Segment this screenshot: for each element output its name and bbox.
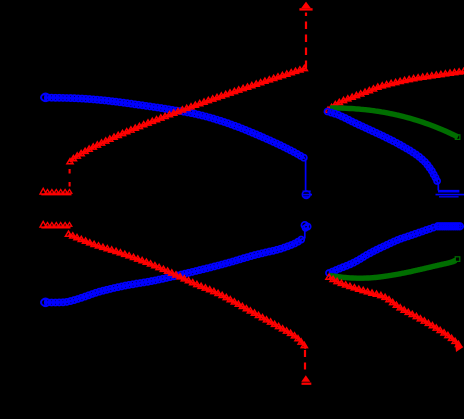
markers: lower-left blue open circles (41, 237, 304, 306)
markers: upper-right blue open circles (324, 108, 440, 184)
curve: lower-left blue level line (44, 239, 303, 303)
markers: upper-left blue open circles (41, 94, 307, 160)
curve: upper-right green thick line (330, 108, 458, 137)
wire: upper-right blue vertical drop (437, 184, 439, 191)
arrow: lower red dashed vertical arrow (304, 350, 306, 374)
curve: upper-left red rising line (70, 68, 306, 162)
marker: lower-left blue large start circle (41, 298, 49, 306)
marker: lower-left red large start triangle (40, 221, 46, 227)
arrow: upper red dashed vertical arrow (305, 13, 307, 69)
arrow: lower-right red end arrowhead (455, 342, 464, 352)
markers: upper-left red rising triangles (67, 65, 308, 163)
marker: upper-right green end square (455, 135, 460, 140)
wire: lower-left red flat level line (41, 227, 70, 229)
wire: lower-right plateau level line (437, 225, 464, 227)
wire: upper-left red flat level line (41, 194, 71, 196)
curve: upper-right blue level line (328, 112, 439, 184)
markers: upper-left red flat row triangles (45, 190, 72, 194)
curve: lower-right green thick line (330, 260, 457, 278)
markers: lower-right red descending triangles (326, 274, 462, 346)
curve: upper-left blue level line (44, 98, 305, 159)
marker: lower-right green end square (455, 257, 460, 262)
curve: lower-right blue level line (329, 227, 436, 273)
markers: lower-right blue open circles (326, 225, 436, 277)
markers: lower-left red flat row triangles (45, 223, 72, 227)
marker: upper-left blue end circle (302, 191, 310, 199)
marker: upper-left blue large start circle (41, 93, 49, 101)
markers: lower-left red descending triangles (65, 231, 307, 348)
node: short level lines at upper-left blue end (302, 191, 312, 197)
markers: upper-right red rising triangles (325, 68, 464, 112)
marker: lower-left blue end circles (301, 222, 308, 229)
curve: lower-right red descending line (329, 278, 462, 348)
markers: lower-right plateau circle row (435, 223, 464, 230)
wire: upper-right plateau level lines (436, 191, 464, 197)
wire: upper-left red dashed vertical jump (69, 164, 71, 187)
curve: upper-right red rising line (328, 72, 464, 111)
wire: upper-left blue vertical drop (305, 159, 307, 192)
curve: lower-left red descending line (69, 235, 307, 349)
marker: upper-left red large start triangle (40, 188, 46, 194)
wire: lower-left blue vertical rise (304, 230, 306, 239)
